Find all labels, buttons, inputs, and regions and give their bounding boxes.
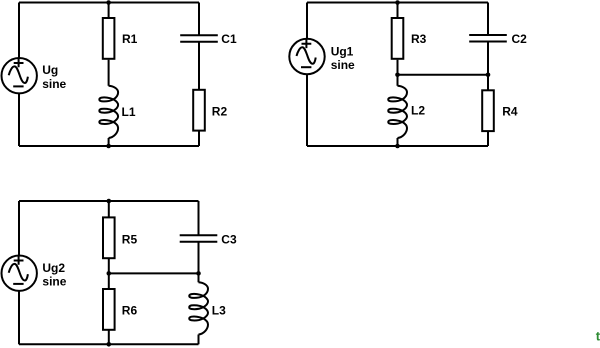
capacitor C1 [180,35,218,42]
svg-text:R4: R4 [502,104,518,118]
svg-text:C3: C3 [221,232,237,246]
junction node bottom (circuit 2) [395,144,400,149]
svg-text:L3: L3 [212,303,226,317]
wire node to L3 [198,273,200,282]
wire bottom (circuit 1) [19,145,199,147]
svg-text:t: t [596,328,600,343]
wire L1 to bottom [108,138,110,146]
junction node mid-right (circuit 3) [196,271,201,276]
resistor R6 [103,289,115,330]
wire middle horizontal (circuit 3) [109,272,199,274]
junction node top (circuit 1) [106,0,111,5]
wire middle top (circuit 1) [108,3,110,18]
junction node mid-right (circuit 2) [486,73,491,78]
junction node top (circuit 3) [107,199,112,204]
wire bottom (circuit 2) [307,145,488,147]
junction node bottom (circuit 3) [107,342,112,347]
junction node bottom (circuit 1) [106,144,111,149]
svg-text:R5: R5 [122,232,138,246]
wire left lower (circuit 2) [306,74,308,146]
inductor L2 [388,86,407,138]
svg-text:Ug: Ug [42,63,58,77]
wire C2 to R4 [487,42,489,90]
svg-text:R2: R2 [212,105,228,119]
svg-text:L2: L2 [411,104,425,118]
voltage source Ug2 [2,256,37,291]
svg-text:R6: R6 [122,303,138,317]
wire middle top (circuit 2) [397,3,399,18]
wire left lower (circuit 3) [18,291,20,344]
svg-text:Ug2: Ug2 [42,261,65,275]
inductor L1 [99,86,118,138]
wire middle horizontal (circuit 2) [398,74,489,76]
capacitor C3 [180,235,218,242]
junction node mid-left (circuit 3) [107,271,112,276]
wire top (circuit 3) [19,200,199,202]
voltage source Ug [2,58,37,93]
wire left lower (circuit 1) [18,94,20,147]
resistor R4 [482,90,494,131]
wire middle top (circuit 3) [108,201,110,217]
svg-text:C2: C2 [512,32,528,46]
wire L2 to bottom [397,138,399,146]
svg-text:sine: sine [331,58,355,72]
svg-text:R1: R1 [122,32,138,46]
svg-text:L1: L1 [122,105,136,119]
resistor R1 [103,18,115,59]
svg-text:sine: sine [42,77,66,91]
svg-text:R3: R3 [411,32,427,46]
wire L3 to bottom [198,335,200,345]
junction node top (circuit 2) [395,0,400,5]
wire C3 to node [198,242,200,274]
wire top (circuit 2) [307,2,488,4]
wire R3 to node [397,60,399,75]
wire left upper (circuit 1) [18,3,20,59]
wire R5 to node [108,259,110,274]
svg-text:sine: sine [42,275,66,289]
wire right upper (circuit 1) [198,3,200,36]
wire R4 to bottom [487,132,489,146]
wire R1 to L1 [108,60,110,86]
wire node to R6 [108,273,110,288]
capacitor C2 [469,35,507,42]
wire left upper (circuit 2) [306,3,308,39]
svg-text:Ug1: Ug1 [331,44,354,58]
wire C1 to R2 [198,42,200,89]
inductor L3 [189,282,208,334]
wire R2 to bottom [198,132,200,147]
wire node to L2 [397,75,399,86]
junction node mid-left (circuit 2) [395,73,400,78]
svg-text:C1: C1 [221,32,237,46]
wire right upper (circuit 2) [487,3,489,36]
wire right upper (circuit 3) [198,201,200,235]
resistor R3 [392,18,404,59]
wire left upper (circuit 3) [18,201,20,256]
wire top (circuit 1) [19,2,199,4]
wire R6 to bottom [108,330,110,344]
resistor R2 [193,90,205,131]
voltage source Ug1 [289,39,324,74]
wire bottom (circuit 3) [19,343,199,345]
resistor R5 [103,217,115,258]
